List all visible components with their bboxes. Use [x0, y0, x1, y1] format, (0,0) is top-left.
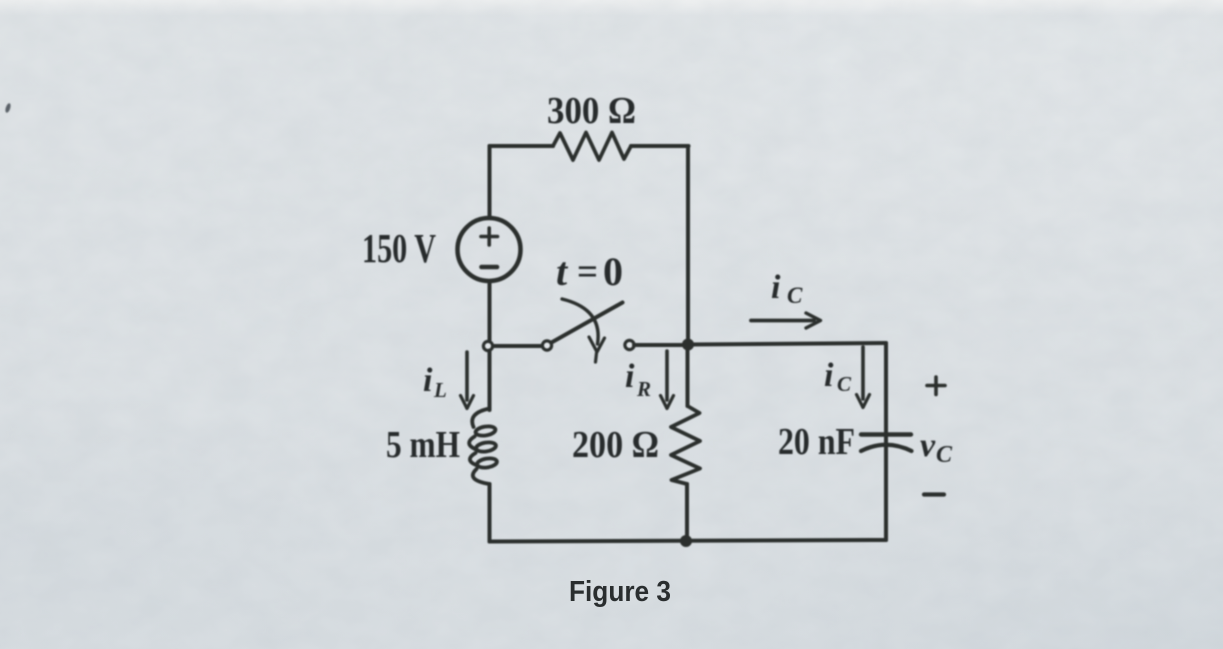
- svg-text:L: L: [433, 378, 447, 402]
- svg-text:i: i: [625, 358, 635, 395]
- label minus sign of vC: [924, 492, 944, 496]
- wire from node A to switch: [493, 344, 542, 348]
- svg-text:200 Ω: 200 Ω: [572, 424, 659, 466]
- svg-text:i: i: [423, 362, 433, 399]
- svg-text:Figure 3: Figure 3: [569, 576, 671, 608]
- svg-text:C: C: [837, 372, 852, 396]
- label t = 0: [556, 249, 623, 294]
- current arrow iR: [661, 351, 674, 409]
- svg-text:150 V: 150 V: [362, 225, 436, 271]
- label 300 Ω: [547, 90, 636, 132]
- switch opening arrow arc: [562, 299, 605, 362]
- wire left vertical below source: [488, 282, 492, 341]
- svg-text:t: t: [556, 249, 569, 294]
- svg-text:20 nF: 20 nF: [778, 421, 855, 463]
- label iR: [625, 358, 651, 401]
- svg-text:i: i: [771, 269, 781, 306]
- wire left vertical upper: [488, 146, 492, 217]
- label plus sign of vC: [927, 377, 945, 395]
- label 150 V: [362, 225, 436, 271]
- voltage source V1: [458, 218, 521, 281]
- svg-text:i: i: [824, 357, 834, 394]
- switch S1 blade and terminals: [542, 303, 634, 351]
- label 200 Ω: [572, 424, 659, 466]
- wire middle vertical from top: [686, 146, 690, 340]
- label 20 nF: [778, 421, 855, 463]
- resistor R1 zigzag: [553, 133, 631, 161]
- svg-text:300 Ω: 300 Ω: [547, 90, 636, 132]
- wire middle vertical to resistor R2: [686, 349, 690, 406]
- capacitor C1 plates: [861, 435, 912, 452]
- node A open terminal on left branch: [483, 341, 492, 350]
- svg-text:C: C: [936, 442, 953, 468]
- node junction on bottom wire: [681, 536, 691, 546]
- node junction at middle vertical: [683, 340, 693, 350]
- wire top-right horizontal: [631, 144, 689, 148]
- label vC: [920, 427, 953, 468]
- wire top-left horizontal: [490, 144, 554, 148]
- label iL: [423, 362, 447, 402]
- label iC top: [771, 269, 803, 308]
- wire below inductor: [488, 484, 492, 542]
- svg-text:C: C: [787, 283, 803, 308]
- label iC mid: [824, 357, 852, 396]
- wire middle horizontal to right branch: [690, 343, 886, 345]
- svg-text:R: R: [636, 377, 651, 401]
- wire switch to middle junction: [634, 343, 686, 347]
- svg-text:5 mH: 5 mH: [386, 424, 460, 466]
- inductor L1 coil: [469, 409, 497, 485]
- resistor R2 zigzag: [671, 406, 700, 484]
- wire bottom horizontal: [490, 540, 887, 542]
- caption Figure 3: [569, 576, 671, 608]
- current arrow iL: [461, 352, 474, 409]
- current arrow iC top horizontal: [751, 313, 821, 328]
- speck mark on paper: [4, 103, 11, 114]
- svg-text:v: v: [920, 427, 936, 464]
- wire node A to inductor: [488, 351, 492, 411]
- svg-text:=: =: [577, 251, 598, 293]
- current arrow iC vertical: [857, 347, 870, 408]
- label 5 mH: [386, 424, 460, 466]
- wire right vertical: [884, 343, 888, 540]
- wire below resistor R2: [685, 484, 689, 541]
- svg-text:0: 0: [603, 249, 623, 294]
